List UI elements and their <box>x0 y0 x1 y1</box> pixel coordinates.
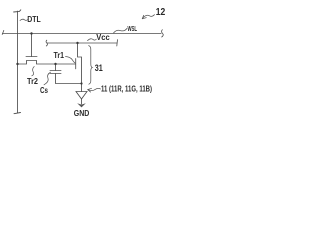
svg-text:GND: GND <box>74 108 90 118</box>
terminal tick right end of Vcc <box>116 40 119 46</box>
leader tilde for Vcc label <box>88 39 97 41</box>
svg-text:12: 12 <box>156 6 166 18</box>
terminal tick top of DTL <box>14 10 21 12</box>
leader tilde for DTL label <box>20 19 28 20</box>
wire DTL data line vertical <box>17 11 19 113</box>
capacitor Cs bottom lead and wire to Tr1 source node <box>56 74 82 84</box>
brace for label 31 <box>89 46 93 85</box>
svg-text:WSL: WSL <box>128 26 138 33</box>
LED 11 triangle <box>76 92 87 100</box>
svg-text:Tr2: Tr2 <box>27 77 38 86</box>
leader squiggle for Cs label <box>44 72 51 85</box>
leader squiggle for Tr2 label <box>32 67 34 76</box>
wire LED cathode to ground <box>81 99 83 104</box>
terminal tick left of WSL <box>2 30 4 34</box>
transistor Tr1 drain lead from Vcc and channel down to LED <box>78 43 82 92</box>
transistor Tr2 gate lead from WSL <box>31 34 33 57</box>
capacitor Cs top lead <box>55 64 57 71</box>
leader arrow squiggle for label 12 <box>143 15 155 19</box>
transistor Tr1 gate bar <box>75 59 77 69</box>
svg-text:DTL: DTL <box>27 14 41 24</box>
capacitor Cs top plate <box>50 70 61 72</box>
svg-text:Vcc: Vcc <box>96 32 110 42</box>
wire Vcc power line horizontal <box>47 42 117 44</box>
junction dot WSL to Tr2 gate <box>30 32 32 34</box>
junction dot Vcc to Tr1 drain <box>76 42 78 44</box>
break squiggle right end of WSL <box>162 30 164 37</box>
svg-text:31: 31 <box>95 63 103 73</box>
junction dot DTL to Tr2 source <box>16 63 18 65</box>
leader curve for Tr1 label <box>66 57 76 63</box>
wire WSL scan line horizontal <box>3 33 162 35</box>
svg-text:11 (11R, 11G, 11B): 11 (11R, 11G, 11B) <box>101 84 152 93</box>
junction dot Cs bottom to Tr1 source <box>80 82 82 84</box>
capacitor Cs bottom plate <box>50 73 61 75</box>
junction dot node to Cs <box>54 63 56 65</box>
leader squiggle for WSL label <box>114 28 128 33</box>
transistor Tr2 gate bar <box>26 56 37 58</box>
ground arrow symbol <box>77 103 86 107</box>
svg-text:Cs: Cs <box>40 86 48 95</box>
svg-text:Tr1: Tr1 <box>54 51 65 60</box>
terminal tick bottom of DTL <box>14 113 21 114</box>
leader arrow squiggle for LED label 11 <box>88 88 101 90</box>
break squiggle left end of Vcc <box>46 40 47 46</box>
transistor Tr2 channel and node wire to Tr1 gate <box>18 61 76 65</box>
